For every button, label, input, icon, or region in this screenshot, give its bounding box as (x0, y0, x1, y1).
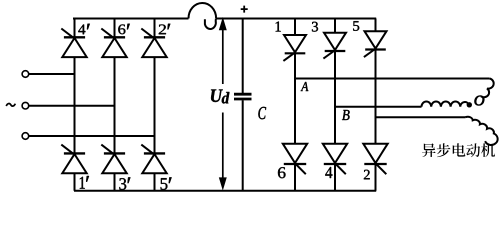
label 2' (159, 24, 171, 34)
label 1 (276, 22, 281, 32)
AC source tilde symbol (6, 103, 15, 106)
wire rectifier leg 2 (114, 19, 116, 191)
thyristor VT6 (283, 144, 307, 175)
wire AC phase T (29, 135, 155, 137)
inductor L (DC link choke) (188, 3, 216, 29)
motor winding phase C (466, 117, 498, 145)
label 5' (161, 177, 172, 189)
label 4 (325, 167, 332, 178)
voltage arrow Ud (double headed) (220, 19, 227, 189)
motor winding phase B (422, 101, 470, 106)
motor winding phase A (481, 79, 494, 98)
label 5 (353, 21, 359, 31)
wire phase C output (376, 116, 466, 118)
node O label (475, 96, 485, 106)
label 4' (78, 24, 90, 34)
thyristor VT1' (61, 145, 86, 174)
label 6 (278, 167, 286, 178)
plus polarity label (241, 6, 248, 13)
wire inverter leg 3 (375, 19, 377, 191)
wire AC phase S (29, 105, 115, 107)
wire inverter leg 1 (294, 19, 296, 191)
thyristor VT5' (141, 145, 166, 174)
thyristor VT3 (323, 33, 346, 59)
wire top DC+ bus right segment (216, 18, 376, 20)
wire phase B output (335, 106, 422, 108)
label asynchronous motor text (422, 143, 495, 157)
terminal AC input S (22, 102, 29, 109)
terminal AC input R (22, 71, 29, 78)
wire bottom DC- bus (74, 190, 376, 192)
thyristor VT2 (363, 144, 387, 175)
wire inverter leg 2 (334, 19, 336, 191)
terminal AC input T (22, 133, 29, 140)
label Ud (211, 90, 229, 104)
thyristor VT4 (323, 144, 347, 175)
thyristor VT6' (101, 29, 126, 58)
label 1' (80, 176, 89, 189)
node O junction dot (467, 102, 472, 107)
thyristor VT1 (283, 35, 306, 61)
label C (258, 107, 266, 119)
wire rectifier leg 1 (74, 19, 76, 191)
thyristor VT4' (61, 29, 86, 58)
label 3 (312, 22, 318, 32)
label 6' (118, 24, 130, 34)
wire top DC+ bus left segment (73, 18, 189, 20)
node A label (301, 82, 309, 91)
label 3' (119, 177, 130, 189)
thyristor VT2' (141, 29, 166, 58)
thyristor VT3' (101, 145, 126, 174)
thyristor VT5 (364, 31, 387, 57)
label 2 (364, 170, 370, 180)
capacitor C (234, 19, 252, 191)
wire phase A output (295, 78, 490, 80)
node B label (342, 110, 350, 120)
wire AC phase R (29, 73, 75, 75)
wire rectifier leg 3 (154, 19, 156, 191)
